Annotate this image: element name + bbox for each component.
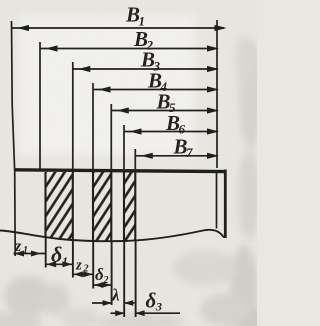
extension line below: hatch2 left [92,241,94,289]
label d3 [146,289,163,314]
dimension line B5 [111,107,219,113]
dimension z1 [14,251,46,257]
label B2 [133,27,154,53]
dimension line B2 [40,45,219,51]
right extension line (common) [216,20,218,168]
hatched section 2 [93,172,111,241]
dimension d3 (arrows outside) [111,310,181,316]
label B1 [125,3,145,29]
dimension line B4 [93,86,219,92]
label B3 [140,48,161,74]
dimension d2 [93,282,111,288]
extension line left of B7 [134,149,136,169]
extension line below: hatch2 right [111,241,113,305]
extension line left of B1 (left body edge) [12,21,16,256]
label d1 [51,242,68,268]
hatched section 3 [124,172,135,241]
extension line left of B6 [123,125,125,169]
dimension line B1 [12,25,227,31]
dimension line B6 [124,128,219,134]
wavy break line [0,230,224,241]
body right edge (thick line) [224,170,227,239]
label B6 [165,111,186,137]
extension line left of B4 [92,83,94,169]
extension line below: hatch3 left [123,241,125,317]
extension line left of B3 [72,62,74,169]
label z2 [75,258,89,275]
hatched section 1 [46,172,73,240]
extension line below: hatch1 left [45,238,47,268]
label B7 [173,135,194,161]
label B4 [147,69,168,95]
dimension line B3 [73,66,219,72]
extension line left of B2 [39,42,41,169]
dimension z3 (arrows outside) [92,300,135,306]
label z1 [14,238,28,256]
label B5 [156,90,177,116]
dimension d1 [46,261,73,267]
extension line left of B5 [110,104,112,169]
body inner right vertical [216,172,218,229]
extension line below: hatch3 right [135,241,137,317]
extension line below: hatch1 right / z2 left [72,240,74,278]
label d2 [95,265,109,286]
dimension z2 [73,271,93,277]
dimension line B7 [135,153,219,159]
label z3 [111,286,120,305]
body top surface (thick line) [15,170,226,172]
